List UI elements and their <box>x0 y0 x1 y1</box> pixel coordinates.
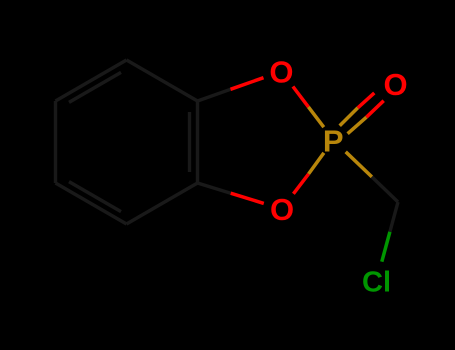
P=O double bond line 1 phosphorus half (orange) <box>340 108 358 126</box>
svg-text:O: O <box>269 55 293 90</box>
bond C7a-O1 oxygen half (red) <box>231 78 264 90</box>
benzene ring edge C7a-C7 <box>127 60 198 101</box>
bond C3a-O3 carbon half (dark) <box>198 183 231 193</box>
bond C3a-O3 oxygen half (red) <box>231 193 264 203</box>
svg-text:O: O <box>383 67 407 102</box>
bond O1-P oxygen half (red) <box>293 87 309 107</box>
P=O double bond line 2 oxygen half (red) <box>366 101 383 118</box>
benzene ring edge C5-C4 <box>56 183 127 224</box>
benzene double bond inner line C3a=C7a <box>188 112 191 172</box>
bond C7a-O1 carbon half (dark) <box>198 89 231 101</box>
svg-text:P: P <box>323 124 344 159</box>
benzene fused edge C3a-C7a <box>196 101 199 183</box>
bond C8-Cl carbon half (dark) <box>390 202 398 232</box>
bond O3-P oxygen half (red) <box>293 174 308 194</box>
benzene ring edge C7-C6 <box>56 60 127 101</box>
bond O3-P phosphorus half (orange) <box>309 153 324 174</box>
benzene ring edge C4-C3a <box>127 183 198 224</box>
bond P-C8 phosphorus half (orange) <box>346 152 372 177</box>
bond C8-Cl chlorine half (green) <box>382 232 390 262</box>
P=O double bond line 1 oxygen half (red) <box>358 93 375 108</box>
bond P-C8 carbon half (dark) <box>372 177 398 202</box>
benzene ring edge C6-C5 <box>54 101 57 183</box>
svg-text:O: O <box>270 192 294 227</box>
bond O1-P phosphorus half (orange) <box>308 107 323 127</box>
P=O double bond line 2 phosphorus half (orange) <box>348 117 367 134</box>
benzene double bond inner line C5=C4 <box>69 182 121 212</box>
benzene double bond inner line C7=C6 <box>69 72 121 102</box>
svg-text:Cl: Cl <box>362 267 391 299</box>
